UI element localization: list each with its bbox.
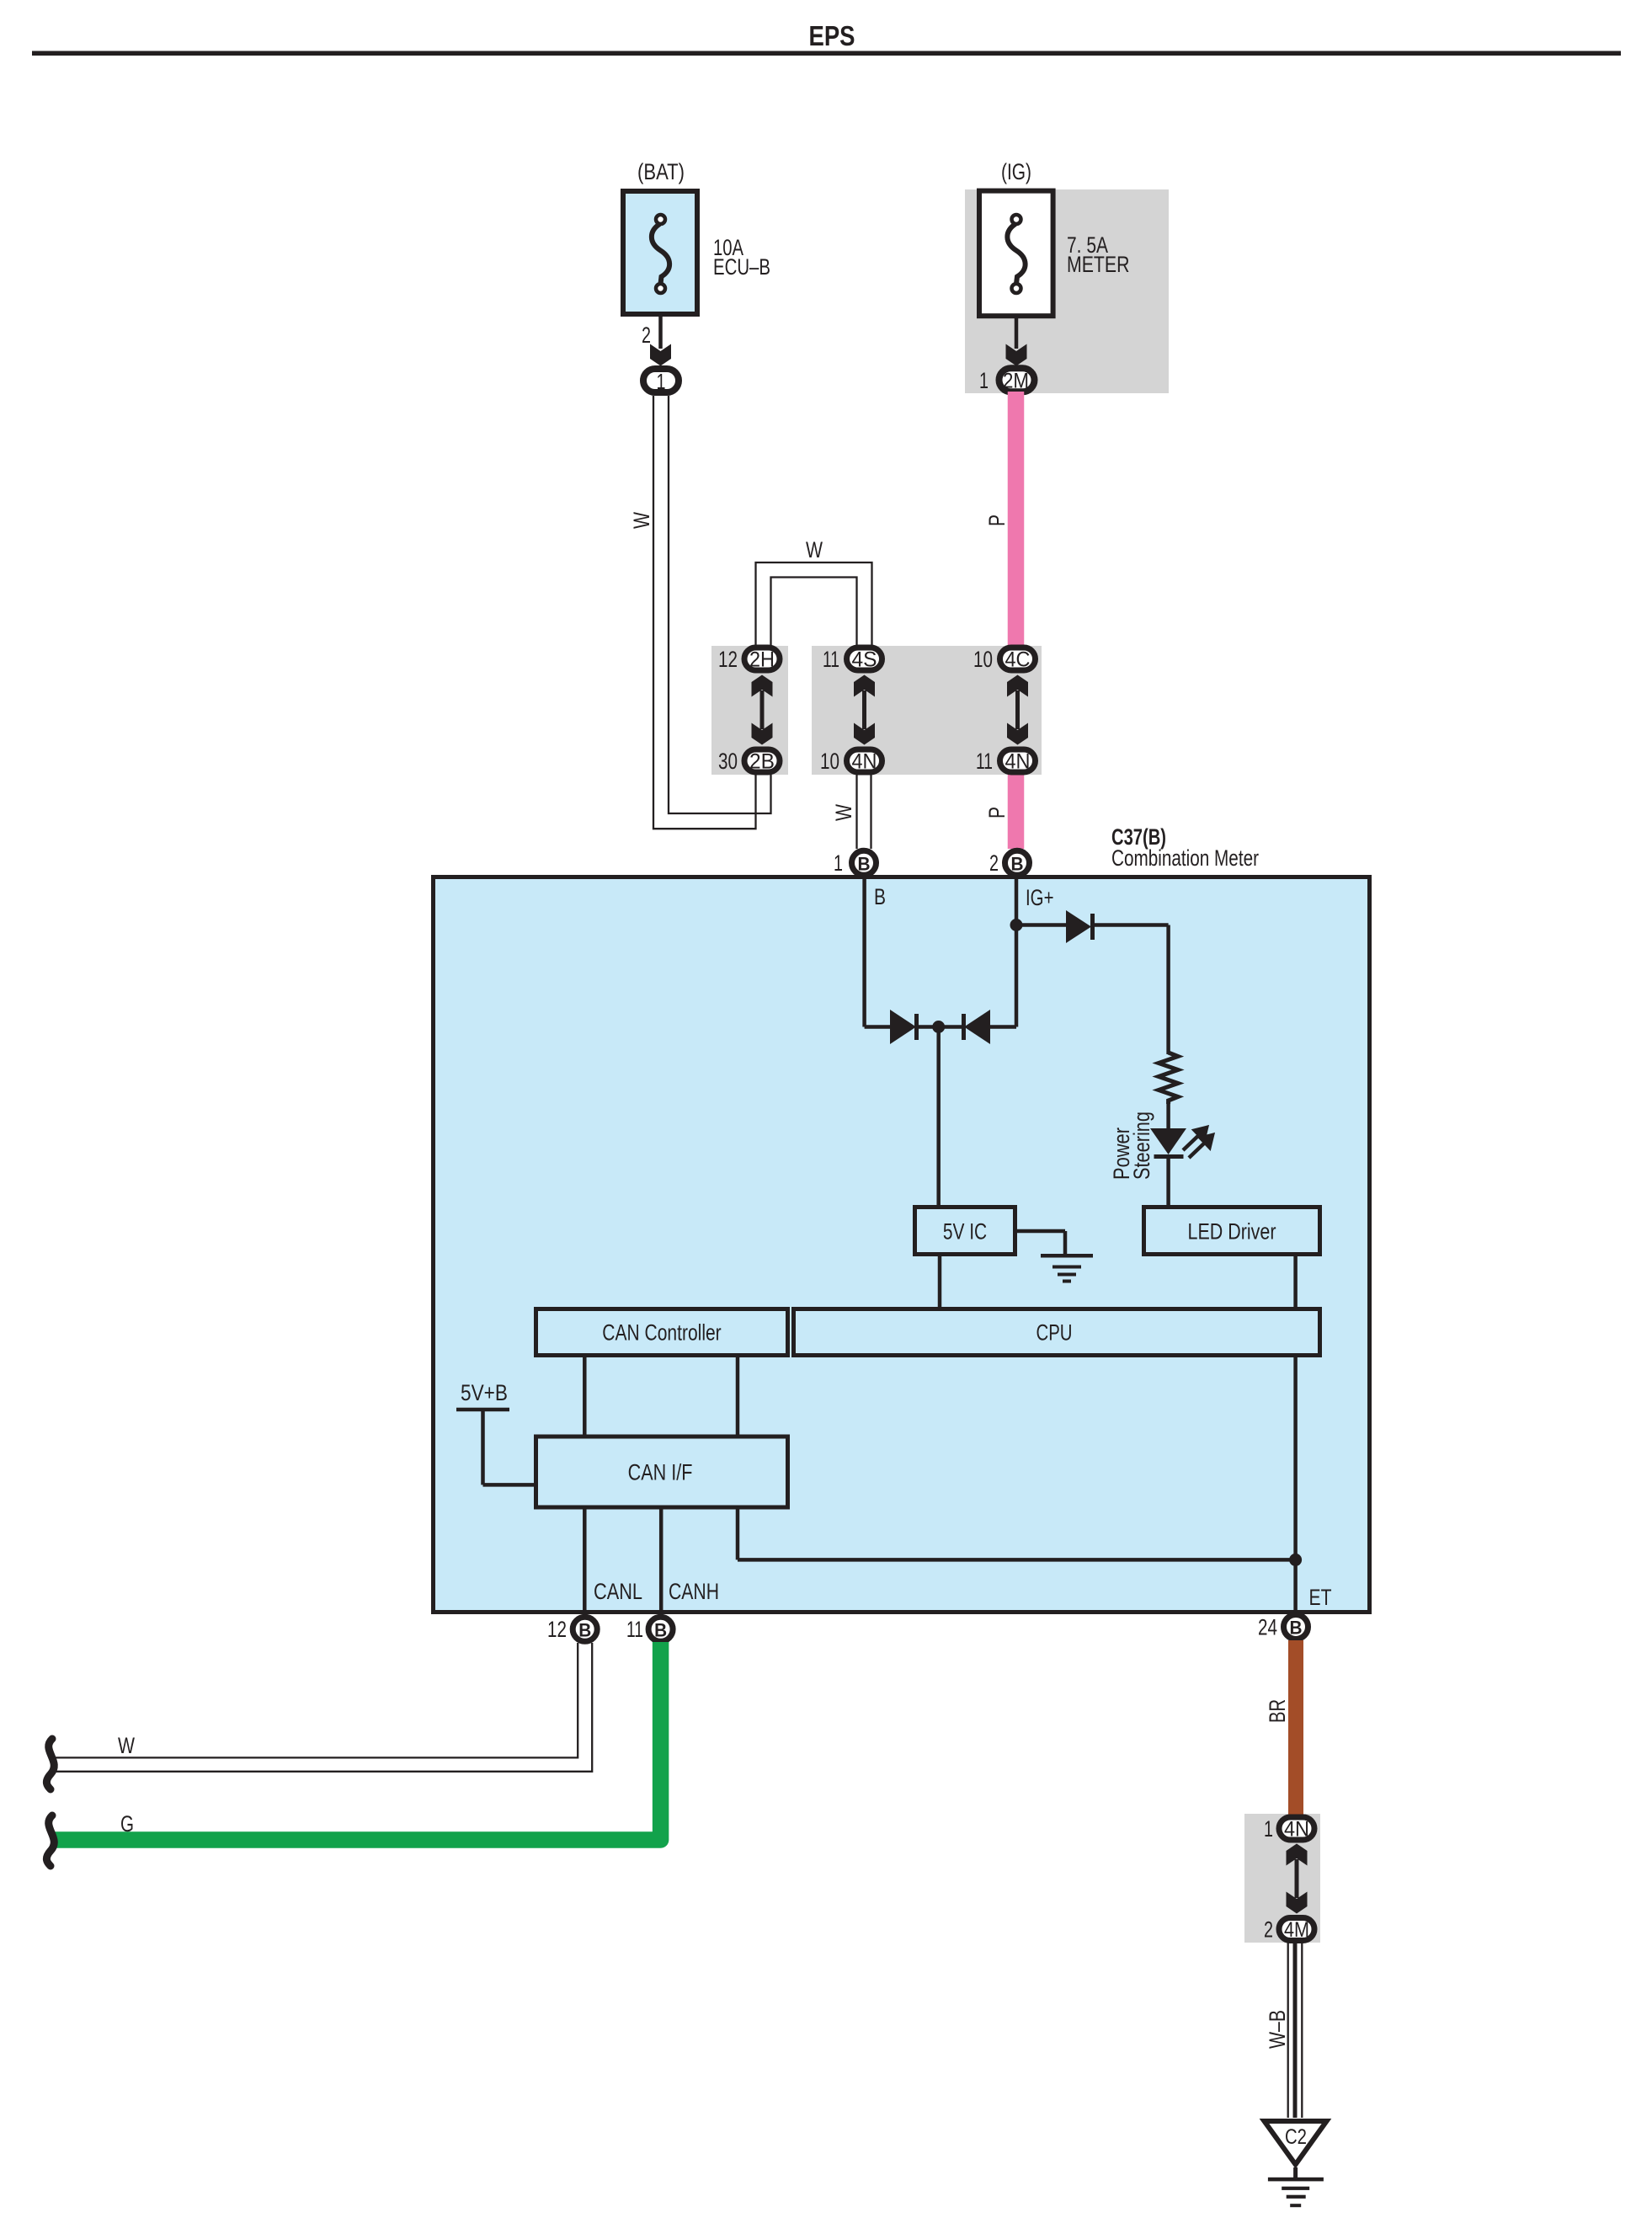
svg-text:C2: C2 <box>1285 2125 1307 2149</box>
svg-text:10: 10 <box>820 749 839 774</box>
svg-text:Steering: Steering <box>1129 1111 1154 1180</box>
svg-text:CANH: CANH <box>669 1579 719 1604</box>
svg-text:5V+B: 5V+B <box>461 1380 508 1405</box>
svg-text:4M: 4M <box>1284 1918 1309 1942</box>
svg-text:CAN I/F: CAN I/F <box>628 1460 693 1485</box>
svg-text:LED Driver: LED Driver <box>1188 1219 1276 1245</box>
svg-text:1: 1 <box>1264 1816 1273 1842</box>
svg-text:CPU: CPU <box>1036 1320 1073 1346</box>
svg-text:2: 2 <box>1264 1917 1273 1943</box>
svg-text:W: W <box>806 537 823 562</box>
svg-text:P: P <box>984 514 1010 526</box>
svg-text:G: G <box>120 1811 134 1837</box>
svg-text:4N: 4N <box>1005 750 1031 774</box>
svg-text:4N: 4N <box>1284 1818 1309 1842</box>
svg-text:W: W <box>831 804 856 821</box>
svg-text:Combination Meter: Combination Meter <box>1111 845 1259 871</box>
svg-text:W: W <box>629 512 654 529</box>
svg-text:5V IC: 5V IC <box>943 1219 987 1245</box>
svg-text:(IG): (IG) <box>1001 159 1031 184</box>
svg-text:2M: 2M <box>1003 369 1029 392</box>
svg-text:B: B <box>874 884 886 909</box>
svg-text:BR: BR <box>1265 1699 1290 1723</box>
svg-text:1: 1 <box>834 850 843 876</box>
svg-text:11: 11 <box>976 749 993 774</box>
svg-text:P: P <box>984 807 1010 818</box>
svg-text:30: 30 <box>718 749 738 774</box>
svg-text:12: 12 <box>547 1617 567 1642</box>
svg-text:2: 2 <box>642 323 651 348</box>
svg-text:10: 10 <box>973 647 993 672</box>
svg-text:4C: 4C <box>1005 648 1031 672</box>
svg-text:ECU–B: ECU–B <box>713 254 770 280</box>
svg-text:2: 2 <box>989 850 999 876</box>
svg-text:CAN Controller: CAN Controller <box>602 1320 721 1346</box>
svg-text:24: 24 <box>1258 1615 1277 1640</box>
svg-text:EPS: EPS <box>809 20 855 51</box>
svg-text:4S: 4S <box>852 648 877 672</box>
svg-text:W–B: W–B <box>1265 2010 1290 2049</box>
svg-text:11: 11 <box>823 647 839 672</box>
svg-text:4N: 4N <box>852 750 877 774</box>
svg-text:2H: 2H <box>749 648 775 672</box>
svg-text:1: 1 <box>657 369 666 394</box>
svg-text:METER: METER <box>1067 252 1130 277</box>
svg-text:2B: 2B <box>749 750 775 774</box>
svg-text:W: W <box>118 1733 135 1758</box>
svg-text:1: 1 <box>979 368 989 393</box>
svg-text:12: 12 <box>718 647 738 672</box>
svg-text:CANL: CANL <box>594 1579 642 1604</box>
svg-text:11: 11 <box>626 1617 643 1642</box>
svg-text:(BAT): (BAT) <box>637 159 685 184</box>
svg-text:ET: ET <box>1309 1585 1332 1610</box>
svg-text:IG+: IG+ <box>1026 885 1054 910</box>
